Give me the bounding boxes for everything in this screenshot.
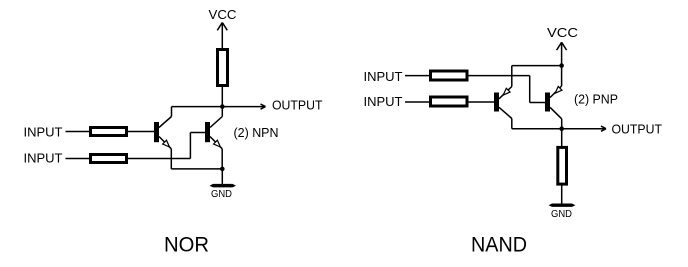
resistor R2 (NOR input 1) (91, 128, 127, 136)
resistor R1 (NOR collector load, vertical) (218, 50, 228, 86)
wire output lead with arrow (NOR) (222, 104, 265, 109)
wire junction to ground (221, 169, 223, 185)
wire R6 to ground (561, 186, 563, 205)
wire input2 to resistor (66, 158, 90, 160)
node output junction (NOR) (220, 104, 225, 109)
ground symbol (NAND) (549, 204, 576, 207)
wire resistor to Q3 base (469, 101, 495, 103)
wire output node to resistor R6 (561, 129, 563, 147)
node ground junction (NOR) (220, 167, 225, 172)
resistor R3 (NOR input 2) (91, 155, 127, 163)
wire resistor to Q2 base (routed under Q1) (128, 133, 205, 159)
transistor Q1 (NPN, NOR) (154, 107, 172, 149)
wire input1 to resistor (405, 75, 429, 77)
svg-text:INPUT: INPUT (364, 69, 403, 84)
wire VCC to emitter node (561, 42, 563, 65)
ground symbol (NOR) (210, 184, 237, 188)
wire resistor to Q4 base (routed) (469, 76, 546, 103)
wire collector rail (NOR) (172, 106, 223, 108)
svg-text:GND: GND (211, 189, 232, 200)
svg-text:(2) NPN: (2) NPN (234, 125, 279, 140)
transistor Q4 (PNP, NAND right) (545, 66, 562, 119)
svg-text:VCC: VCC (209, 7, 237, 22)
wire Q1 emitter down (170, 149, 172, 169)
resistor R6 (NAND pull-down, vertical) (558, 147, 567, 184)
node VCC junction (NAND) (559, 63, 564, 68)
svg-text:OUTPUT: OUTPUT (272, 98, 323, 113)
wire Q2 emitter down (221, 149, 223, 169)
VCC power symbol arrow (NOR) (217, 23, 227, 31)
svg-text:(2) PNP: (2) PNP (574, 92, 618, 107)
svg-text:NAND: NAND (471, 234, 527, 257)
svg-text:VCC: VCC (547, 25, 578, 40)
svg-text:GND: GND (551, 209, 572, 220)
resistor R5 (NAND input 2) (431, 97, 468, 106)
wire VCC to resistor R1 (221, 23, 223, 50)
VCC power symbol arrow (NAND) (557, 42, 567, 50)
wire output lead with arrow (NAND) (562, 126, 606, 131)
svg-text:INPUT: INPUT (24, 125, 63, 140)
resistor R4 (NAND input 1) (431, 71, 468, 80)
wire Q3 collector down (511, 119, 513, 129)
wire input2 to resistor (405, 101, 429, 103)
wire emitter rail (NOR) (171, 168, 222, 170)
wire R1 to output node (221, 87, 223, 107)
node output junction (NAND) (559, 126, 564, 131)
svg-text:INPUT: INPUT (364, 94, 403, 109)
transistor Q3 (PNP, NAND left) (494, 66, 512, 119)
svg-text:NOR: NOR (164, 234, 209, 257)
wire collector rail (NAND) (512, 128, 562, 130)
wire resistor to Q1 base (128, 131, 154, 133)
svg-text:INPUT: INPUT (24, 151, 63, 166)
transistor Q2 (NPN, NOR) (205, 107, 222, 149)
wire input1 to resistor (66, 131, 90, 133)
wire Q4 collector down (561, 119, 563, 129)
wire emitter rail (NAND) (512, 65, 562, 67)
svg-text:OUTPUT: OUTPUT (612, 122, 663, 137)
